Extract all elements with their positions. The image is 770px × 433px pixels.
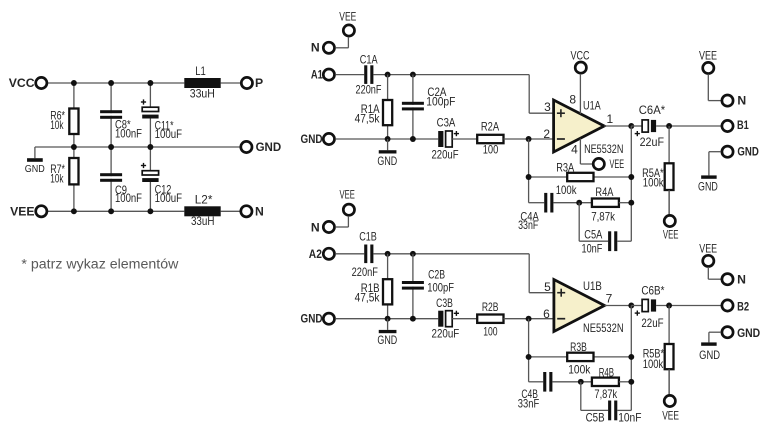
svg-text:33uH: 33uH [190,87,215,101]
svg-text:VEE: VEE [663,227,679,241]
svg-text:VEE: VEE [662,409,679,423]
svg-text:C5A: C5A [584,228,602,242]
svg-text:R2A: R2A [481,119,499,133]
svg-text:C1B: C1B [359,230,377,244]
svg-text:8: 8 [569,92,576,106]
svg-text:C3B: C3B [436,296,453,310]
svg-text:VEE: VEE [340,187,355,201]
svg-text:100k: 100k [556,183,578,197]
svg-text:GND: GND [698,180,718,194]
svg-text:7,87k: 7,87k [594,387,618,401]
svg-text:100pF: 100pF [426,95,455,109]
svg-text:C2B: C2B [428,267,445,281]
svg-text:100pF: 100pF [427,280,454,294]
svg-text:GND: GND [737,144,759,158]
svg-text:B1: B1 [737,118,749,132]
svg-text:VCC: VCC [9,76,35,90]
svg-text:C1A: C1A [360,53,378,67]
svg-text:R3A: R3A [556,161,574,175]
svg-text:C6A*: C6A* [639,103,666,117]
svg-text:R4A: R4A [595,185,613,199]
svg-text:6: 6 [543,307,550,321]
svg-text:GND: GND [699,348,720,362]
svg-text:B2: B2 [737,299,749,313]
svg-text:100k: 100k [568,362,591,376]
svg-text:220nF: 220nF [356,83,382,97]
svg-text:220uF: 220uF [431,148,458,162]
svg-text:U1A: U1A [583,99,601,113]
svg-text:100: 100 [483,143,499,157]
svg-text:L1: L1 [195,64,206,78]
svg-text:N: N [737,93,746,107]
svg-text:100k: 100k [643,357,664,371]
svg-text:100uF: 100uF [155,127,183,141]
svg-text:GND: GND [737,326,760,340]
svg-text:NE5532N: NE5532N [584,142,623,156]
svg-text:100nF: 100nF [115,126,142,140]
svg-text:33uH: 33uH [191,214,215,228]
svg-text:220nF: 220nF [352,265,378,279]
svg-text:VEE: VEE [610,157,625,171]
svg-text:10nF: 10nF [618,411,641,425]
svg-text:10k: 10k [50,118,64,132]
svg-text:7: 7 [606,292,613,306]
svg-text:47,5k: 47,5k [355,291,381,305]
svg-text:N: N [737,273,746,287]
svg-text:A1: A1 [311,68,323,82]
svg-text:VEE: VEE [339,9,356,23]
svg-text:U1B: U1B [583,279,602,293]
svg-text:R4B: R4B [599,365,614,379]
svg-text:33nF: 33nF [518,396,539,410]
svg-text:10nF: 10nF [582,241,603,255]
svg-text:33nF: 33nF [518,218,538,232]
svg-text:R2B: R2B [482,300,499,314]
svg-text:L2*: L2* [195,192,213,206]
svg-text:3: 3 [544,100,551,114]
svg-text:220uF: 220uF [432,326,460,340]
svg-text:7,87k: 7,87k [591,210,616,224]
svg-text:C6B*: C6B* [641,283,664,297]
svg-text:GND: GND [25,163,45,175]
svg-text:4: 4 [571,143,578,157]
svg-text:VCC: VCC [571,48,590,62]
svg-text:VEE: VEE [699,242,717,256]
svg-text:GND: GND [377,154,397,168]
svg-text:GND: GND [256,140,282,154]
svg-text:GND: GND [301,312,323,326]
svg-text:A2: A2 [309,247,322,261]
svg-text:C5B: C5B [586,411,605,425]
svg-text:100k: 100k [643,176,665,190]
svg-text:GND: GND [377,333,397,347]
svg-text:10k: 10k [50,171,64,185]
svg-text:22uF: 22uF [641,316,663,330]
svg-text:NE5532N: NE5532N [583,321,624,335]
svg-text:N: N [311,41,320,55]
svg-text:100nF: 100nF [115,191,142,205]
svg-text:N: N [255,204,264,218]
svg-text:100uF: 100uF [155,191,183,205]
svg-text:N: N [311,221,320,235]
svg-text:P: P [255,76,263,90]
svg-text:5: 5 [544,280,551,294]
svg-text:1: 1 [606,112,613,126]
svg-text:C3A: C3A [437,115,456,129]
svg-text:GND: GND [301,132,323,146]
svg-text:VEE: VEE [10,205,34,219]
svg-text:R3B: R3B [570,340,587,354]
svg-text:47,5k: 47,5k [355,111,381,125]
svg-text:2: 2 [543,127,550,141]
svg-text:* patrz wykaz elementów: * patrz wykaz elementów [21,257,178,272]
svg-text:22uF: 22uF [640,135,664,149]
svg-text:100: 100 [483,324,498,338]
svg-text:VEE: VEE [699,49,717,63]
